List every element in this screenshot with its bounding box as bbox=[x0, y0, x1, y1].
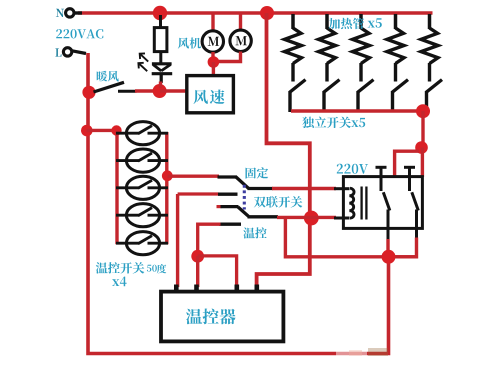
thermal cutout switch 5 (50C) bbox=[116, 232, 168, 255]
thermal cutout switch 4 (50C) bbox=[116, 204, 168, 227]
relay coil bottom lead bbox=[334, 217, 350, 220]
wire: LED to node bbox=[159, 82, 162, 89]
heater resistor 3 bbox=[353, 28, 370, 64]
label shuanglian kaiguan (double switch) bbox=[254, 196, 303, 208]
motor M2 bbox=[230, 30, 251, 51]
wire: heater 3 bottom stub bbox=[356, 91, 359, 112]
wire: heater 2 bottom stub bbox=[322, 91, 325, 112]
label wenkong (thermostat contact) bbox=[243, 227, 266, 238]
wire: heater 5 bottom stub bbox=[425, 91, 428, 112]
wire: heater 1 top stub bbox=[291, 14, 295, 29]
wire: P2 common branch down bbox=[285, 217, 418, 257]
wire: rail dot to fixed throw bbox=[168, 174, 220, 177]
wire: heater 1 bottom stub bbox=[288, 91, 291, 112]
junction dot (86.5,130.5) bbox=[81, 125, 93, 137]
relay coil top lead bbox=[334, 187, 350, 190]
wire: N trunk down-jog to relay node and pin4 bbox=[257, 13, 310, 287]
wire: trunk to left rail bbox=[87, 129, 118, 132]
wire: drop to thermostat pin1 bbox=[176, 194, 179, 287]
junction dot on bus (160,13) bbox=[153, 6, 167, 20]
thermal cutout switch 2 (50C) bbox=[116, 149, 168, 172]
terminal N bbox=[66, 9, 74, 17]
label N bbox=[56, 9, 64, 17]
wire: heater 3 top stub bbox=[359, 14, 363, 29]
wire: relay fixed-contact feed (jog) bbox=[395, 151, 419, 176]
junction dot (388.5,256.8) bbox=[382, 250, 396, 264]
LED D1 triangle side R bbox=[161, 65, 170, 71]
wire: heater 5 top stub bbox=[428, 14, 432, 29]
wire: heater 5 mid stub bbox=[428, 63, 431, 82]
fan-speed controller box bbox=[187, 76, 234, 113]
label 220VAC bbox=[56, 29, 103, 39]
switch S5 blade (independent switch 5) bbox=[426, 80, 442, 93]
relay box bbox=[343, 177, 422, 229]
mechanical link (dashed) bbox=[243, 185, 246, 210]
thermostat controller box bbox=[161, 292, 283, 342]
wire: LED cathode stub bbox=[160, 74, 163, 83]
relay contact 1 fixed T-bar bbox=[376, 166, 387, 169]
wire: motor M1 bottom lead bbox=[211, 52, 214, 60]
wire: heater 2 top stub bbox=[325, 14, 329, 29]
wire: N terminal black lead bbox=[74, 11, 82, 14]
wire: dot to relay box top right bbox=[421, 148, 424, 178]
switch S2 blade (independent switch 2) bbox=[324, 80, 340, 93]
label fengsu (fan speed) bbox=[193, 90, 224, 105]
thermal cutout switch 3 (50C) bbox=[116, 176, 168, 199]
switch S3 blade (independent switch 3) bbox=[358, 80, 374, 93]
switch 'nuanfeng' blade bbox=[94, 82, 125, 92]
LED D1 triangle side L bbox=[153, 65, 161, 71]
LED D1 cathode bar bbox=[152, 72, 173, 75]
switch S1 blade (independent switch 1) bbox=[290, 80, 306, 93]
wire: resistor R top lead bbox=[159, 15, 162, 29]
junction dot (311.5,218) bbox=[304, 211, 319, 226]
thermal cutout switch 1 (50C) bbox=[116, 122, 168, 145]
label x4 bbox=[112, 277, 127, 287]
wire: heater 3 mid stub bbox=[359, 63, 362, 82]
wire: thermostat throw feed bbox=[198, 224, 221, 254]
relay contact 1 fixed stem bbox=[380, 167, 383, 191]
thermostat pin 2 bbox=[194, 285, 199, 293]
heater resistor 1 bbox=[285, 28, 302, 64]
wire: top N bus bbox=[78, 11, 433, 14]
LED D1 anode bar bbox=[152, 62, 172, 65]
wire: heater 4 bottom stub bbox=[391, 91, 394, 112]
thermostat pin 3 bbox=[235, 285, 240, 293]
switch P2 throw-a contact bbox=[221, 205, 239, 208]
wire: L trunk left/bottom/right loop bbox=[88, 53, 389, 354]
wire: left rail of thermal switches bbox=[115, 131, 118, 245]
junction dot (213,62) bbox=[208, 56, 220, 68]
label guding (fixed) bbox=[246, 167, 269, 178]
LED D1 arrow 1 bbox=[140, 53, 149, 61]
label jiareguan (heater tubes) bbox=[329, 18, 365, 29]
wire: heater 4 top stub bbox=[394, 14, 398, 29]
relay contact 1 common stem bbox=[387, 210, 390, 240]
junction dot (197.7,256.2) bbox=[191, 250, 204, 263]
wire: P1 common to relay coil top bbox=[272, 187, 336, 190]
wire: heater bus to relay corner bbox=[421, 111, 424, 147]
relay contact 2 fixed stem bbox=[408, 167, 411, 191]
label wenkong kaiguan (thermal switch) bbox=[96, 262, 145, 274]
heater resistor 5 bbox=[421, 28, 438, 64]
wire: heater 2 mid stub bbox=[325, 63, 328, 82]
label fengji (fan motors) bbox=[178, 38, 201, 49]
watermark smudge bbox=[336, 348, 388, 356]
thermostat pin 4 bbox=[254, 285, 259, 293]
resistor R (LED dropper) bbox=[154, 28, 167, 52]
switch P1 throw-a contact (fixed) bbox=[218, 175, 238, 178]
switch P2 throw-b contact (thermostat) bbox=[219, 223, 241, 226]
label x5 (heaters) bbox=[368, 18, 382, 28]
thermostat pin 1 bbox=[174, 285, 179, 293]
wire: motor M2 bottom lead bbox=[218, 52, 241, 62]
label L bbox=[55, 48, 61, 56]
switch P2 common lead bbox=[248, 215, 279, 218]
wire: throw-b feed with drop to pin1 bbox=[178, 192, 219, 195]
relay contact 1 blade bbox=[383, 192, 390, 210]
label du (degree) bbox=[157, 264, 167, 273]
junction dot (160,91) bbox=[153, 84, 167, 98]
terminal L bbox=[63, 48, 71, 56]
heater resistor 2 bbox=[319, 28, 336, 64]
motor M1 bbox=[202, 31, 223, 52]
LED D1 arrow 2 bbox=[138, 63, 147, 71]
wire: P2 common to relay coil bottom (through node) bbox=[277, 216, 336, 219]
motor M1 letter bbox=[208, 37, 219, 46]
relay coil bbox=[349, 188, 354, 218]
switch P1 blade bbox=[236, 177, 249, 188]
wire: heater 4 mid stub bbox=[394, 63, 397, 82]
wire: heater 1 mid stub bbox=[291, 63, 294, 82]
junction dot (89,92) bbox=[82, 86, 95, 99]
junction dot (421.5,147.5) bbox=[415, 141, 428, 154]
wire: LED cathode stub bbox=[160, 74, 163, 83]
relay core line 1 bbox=[360, 187, 362, 220]
junction dot (167.5,175.8) bbox=[162, 170, 173, 181]
wire: right rail of thermal switches bbox=[165, 132, 168, 244]
relay core line 2 bbox=[365, 187, 367, 220]
wire: L terminal black lead bbox=[72, 51, 86, 54]
wire: motor M1 top lead bbox=[211, 14, 214, 31]
relay contact 2 blade bbox=[412, 192, 419, 210]
label 220V (relay coil) bbox=[337, 164, 368, 174]
junction dot (423,111) bbox=[416, 104, 430, 118]
switch P1 common lead bbox=[248, 187, 274, 190]
wire: dot to thermostat pin3 bbox=[198, 256, 237, 287]
switch 'nuanfeng' contact bbox=[118, 90, 137, 93]
wire: motor M2 top lead bbox=[239, 14, 242, 30]
label 50 bbox=[147, 265, 157, 272]
label duli kaiguan x5 (independent switches) bbox=[302, 117, 365, 129]
switch P2 blade bbox=[238, 207, 249, 216]
label wenkongqi (thermostat controller) bbox=[186, 309, 236, 325]
wire: contact2 common L to node bbox=[392, 238, 417, 257]
wire: resistor R bottom lead bbox=[159, 52, 162, 65]
junction dot (116.5,130.5) bbox=[111, 125, 121, 135]
junction dot on bus (267,13) bbox=[260, 6, 274, 20]
wire: nuanfeng contact to LED node bbox=[135, 89, 158, 92]
wire: dot to thermostat pin2 bbox=[196, 256, 199, 287]
relay contact 2 common stem bbox=[415, 210, 418, 239]
wire: heater bottom bus bbox=[291, 109, 426, 112]
motor M2 letter bbox=[236, 36, 247, 45]
heater resistor 4 bbox=[387, 28, 404, 64]
switch P1 throw-b contact bbox=[218, 193, 238, 196]
switch S4 blade (independent switch 4) bbox=[392, 80, 408, 93]
wire: motor node to fan-speed box bbox=[212, 62, 215, 77]
wire: contact1 common to node bbox=[386, 239, 389, 251]
wire: P2 throw-a red nub bbox=[217, 205, 222, 208]
wire: LED node to fan-speed box bbox=[160, 89, 187, 92]
label nuanfeng (warm air) bbox=[97, 71, 119, 82]
relay contact 2 fixed T-bar bbox=[404, 166, 415, 169]
